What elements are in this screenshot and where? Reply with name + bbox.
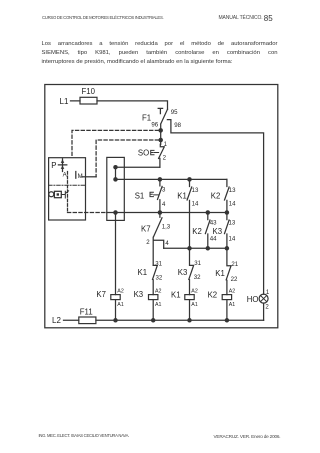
junction dot K1 bus1 [187, 177, 192, 182]
svg-text:L2: L2 [52, 316, 61, 325]
footer right [214, 434, 281, 439]
svg-text:K1: K1 [138, 268, 148, 277]
svg-text:1: 1 [164, 141, 168, 148]
svg-text:1: 1 [266, 289, 270, 296]
coil K7 [111, 295, 120, 300]
svg-text:A: A [63, 171, 68, 178]
contact K1 13/14 [187, 179, 192, 248]
wire line3 [164, 247, 227, 249]
svg-text:14: 14 [192, 200, 199, 207]
svg-text:P: P [51, 161, 56, 170]
push button S1 [158, 179, 163, 212]
svg-text:K3: K3 [178, 268, 188, 277]
svg-text:2: 2 [265, 303, 269, 310]
junction dot L2 K3 [151, 318, 156, 323]
svg-text:2: 2 [146, 239, 150, 246]
svg-text:F10: F10 [82, 87, 96, 96]
svg-text:F11: F11 [80, 308, 93, 317]
svg-text:HO: HO [247, 295, 259, 304]
svg-text:44: 44 [210, 236, 217, 243]
junction dot L2 K1 [187, 318, 192, 323]
svg-text:K7: K7 [96, 290, 106, 299]
coil K3 [149, 295, 158, 300]
S1 actuator [150, 192, 158, 196]
pilot lamp HO [259, 294, 268, 303]
header right [219, 15, 263, 21]
junction dot 3 [113, 210, 118, 215]
wire terminal block to coil K7 [115, 213, 117, 295]
svg-text:K2: K2 [208, 290, 218, 299]
dashed wire M to node b [96, 140, 158, 177]
svg-text:SO: SO [138, 148, 149, 157]
junction node b [158, 138, 163, 143]
junction dot 1 [113, 165, 118, 170]
svg-text:4: 4 [162, 201, 166, 208]
svg-text:14: 14 [229, 200, 236, 207]
pressure switch symbol [58, 159, 66, 172]
svg-text:3: 3 [162, 187, 166, 194]
junction dot S1 bus2 [158, 210, 163, 215]
fuse F10 [80, 97, 97, 104]
paragraph line 2 [42, 50, 278, 56]
wire L2 [64, 319, 264, 321]
svg-text:A2: A2 [117, 289, 124, 295]
svg-text:K1: K1 [177, 192, 187, 201]
bus 2 [107, 212, 227, 214]
wire 98 to lamp [167, 120, 263, 295]
svg-text:13: 13 [229, 187, 236, 194]
svg-text:K2: K2 [192, 227, 202, 236]
junction dot L2 K2 [225, 318, 230, 323]
diagram border frame [45, 85, 278, 328]
svg-text:K3: K3 [134, 290, 144, 299]
bus 2 dashed left [68, 212, 107, 214]
svg-text:A1: A1 [117, 302, 124, 308]
svg-text:A1: A1 [191, 302, 198, 308]
dashed link P to compressor [67, 172, 69, 213]
fuse F11 [79, 317, 96, 324]
paragraph line 3 [42, 59, 233, 65]
svg-text:A1: A1 [229, 302, 236, 308]
svg-text:A2: A2 [155, 289, 162, 295]
contact K1 21/22 [226, 248, 231, 294]
svg-text:2: 2 [163, 155, 167, 162]
dashed wire pressure switch P to node a [72, 130, 159, 157]
junction dot K2 bus2 [206, 210, 211, 215]
junction dot S1 bus1 [158, 177, 163, 182]
svg-text:32: 32 [156, 274, 163, 281]
paragraph line 1 [42, 41, 278, 47]
svg-text:21: 21 [231, 261, 238, 268]
svg-text:13: 13 [192, 187, 199, 194]
svg-text:K1: K1 [171, 290, 181, 299]
junction dot 2 [113, 177, 118, 182]
svg-text:1,3: 1,3 [162, 224, 171, 231]
svg-text:S1: S1 [135, 191, 145, 200]
svg-text:A2: A2 [229, 289, 236, 295]
coil K1 [185, 295, 194, 300]
junction dot K2-44 line3 [206, 246, 211, 251]
divider dash-dot [49, 184, 86, 186]
overload contact F1 [158, 108, 167, 144]
svg-text:14: 14 [229, 236, 236, 243]
svg-text:43: 43 [210, 220, 217, 227]
wire SO to terminal block [116, 166, 160, 168]
svg-text:M: M [78, 173, 83, 180]
svg-text:13: 13 [229, 220, 236, 227]
coil K2 [222, 295, 231, 300]
svg-text:31: 31 [155, 260, 162, 267]
svg-text:K2: K2 [211, 192, 221, 201]
page number 85 [264, 14, 273, 23]
svg-text:K3: K3 [213, 227, 223, 236]
junction dot K3 bus2 [225, 210, 230, 215]
svg-text:98: 98 [174, 122, 181, 129]
svg-text:A1: A1 [155, 302, 162, 308]
contact K3 31/32 [189, 248, 194, 294]
contact K2 43/44 [205, 213, 210, 249]
contact K3 13/14 [225, 213, 230, 249]
contact K1 31/32 [153, 265, 158, 294]
SO actuator [151, 150, 159, 154]
svg-text:4: 4 [165, 240, 169, 247]
contact K2 13/14 [225, 179, 230, 212]
footer left [39, 433, 130, 438]
svg-text:K7: K7 [141, 225, 151, 234]
svg-text:32: 32 [194, 274, 201, 281]
wire L1 [71, 101, 168, 109]
junction dot K1-21 line3 [225, 246, 230, 251]
wire M link [82, 176, 96, 178]
svg-text:F1: F1 [142, 113, 151, 122]
wire dot1-dot2 [115, 167, 117, 179]
svg-text:A2: A2 [191, 289, 198, 295]
svg-text:96: 96 [151, 121, 158, 128]
terminal bar M [75, 172, 77, 179]
junction dot K3col line3 [187, 246, 192, 251]
svg-text:L1: L1 [60, 97, 69, 106]
svg-text:K1: K1 [215, 269, 225, 278]
pressure switch box [49, 158, 86, 220]
bus 1 [116, 178, 227, 180]
junction dot L2 K7 [113, 318, 118, 323]
junction node a [158, 128, 163, 133]
terminal block [107, 157, 125, 220]
header left [42, 15, 163, 20]
timer contact K7 [153, 213, 164, 266]
compressor symbol [49, 192, 54, 197]
push button SO [159, 144, 165, 167]
svg-text:95: 95 [171, 109, 178, 116]
svg-text:22: 22 [231, 276, 238, 283]
svg-text:31: 31 [194, 260, 201, 267]
